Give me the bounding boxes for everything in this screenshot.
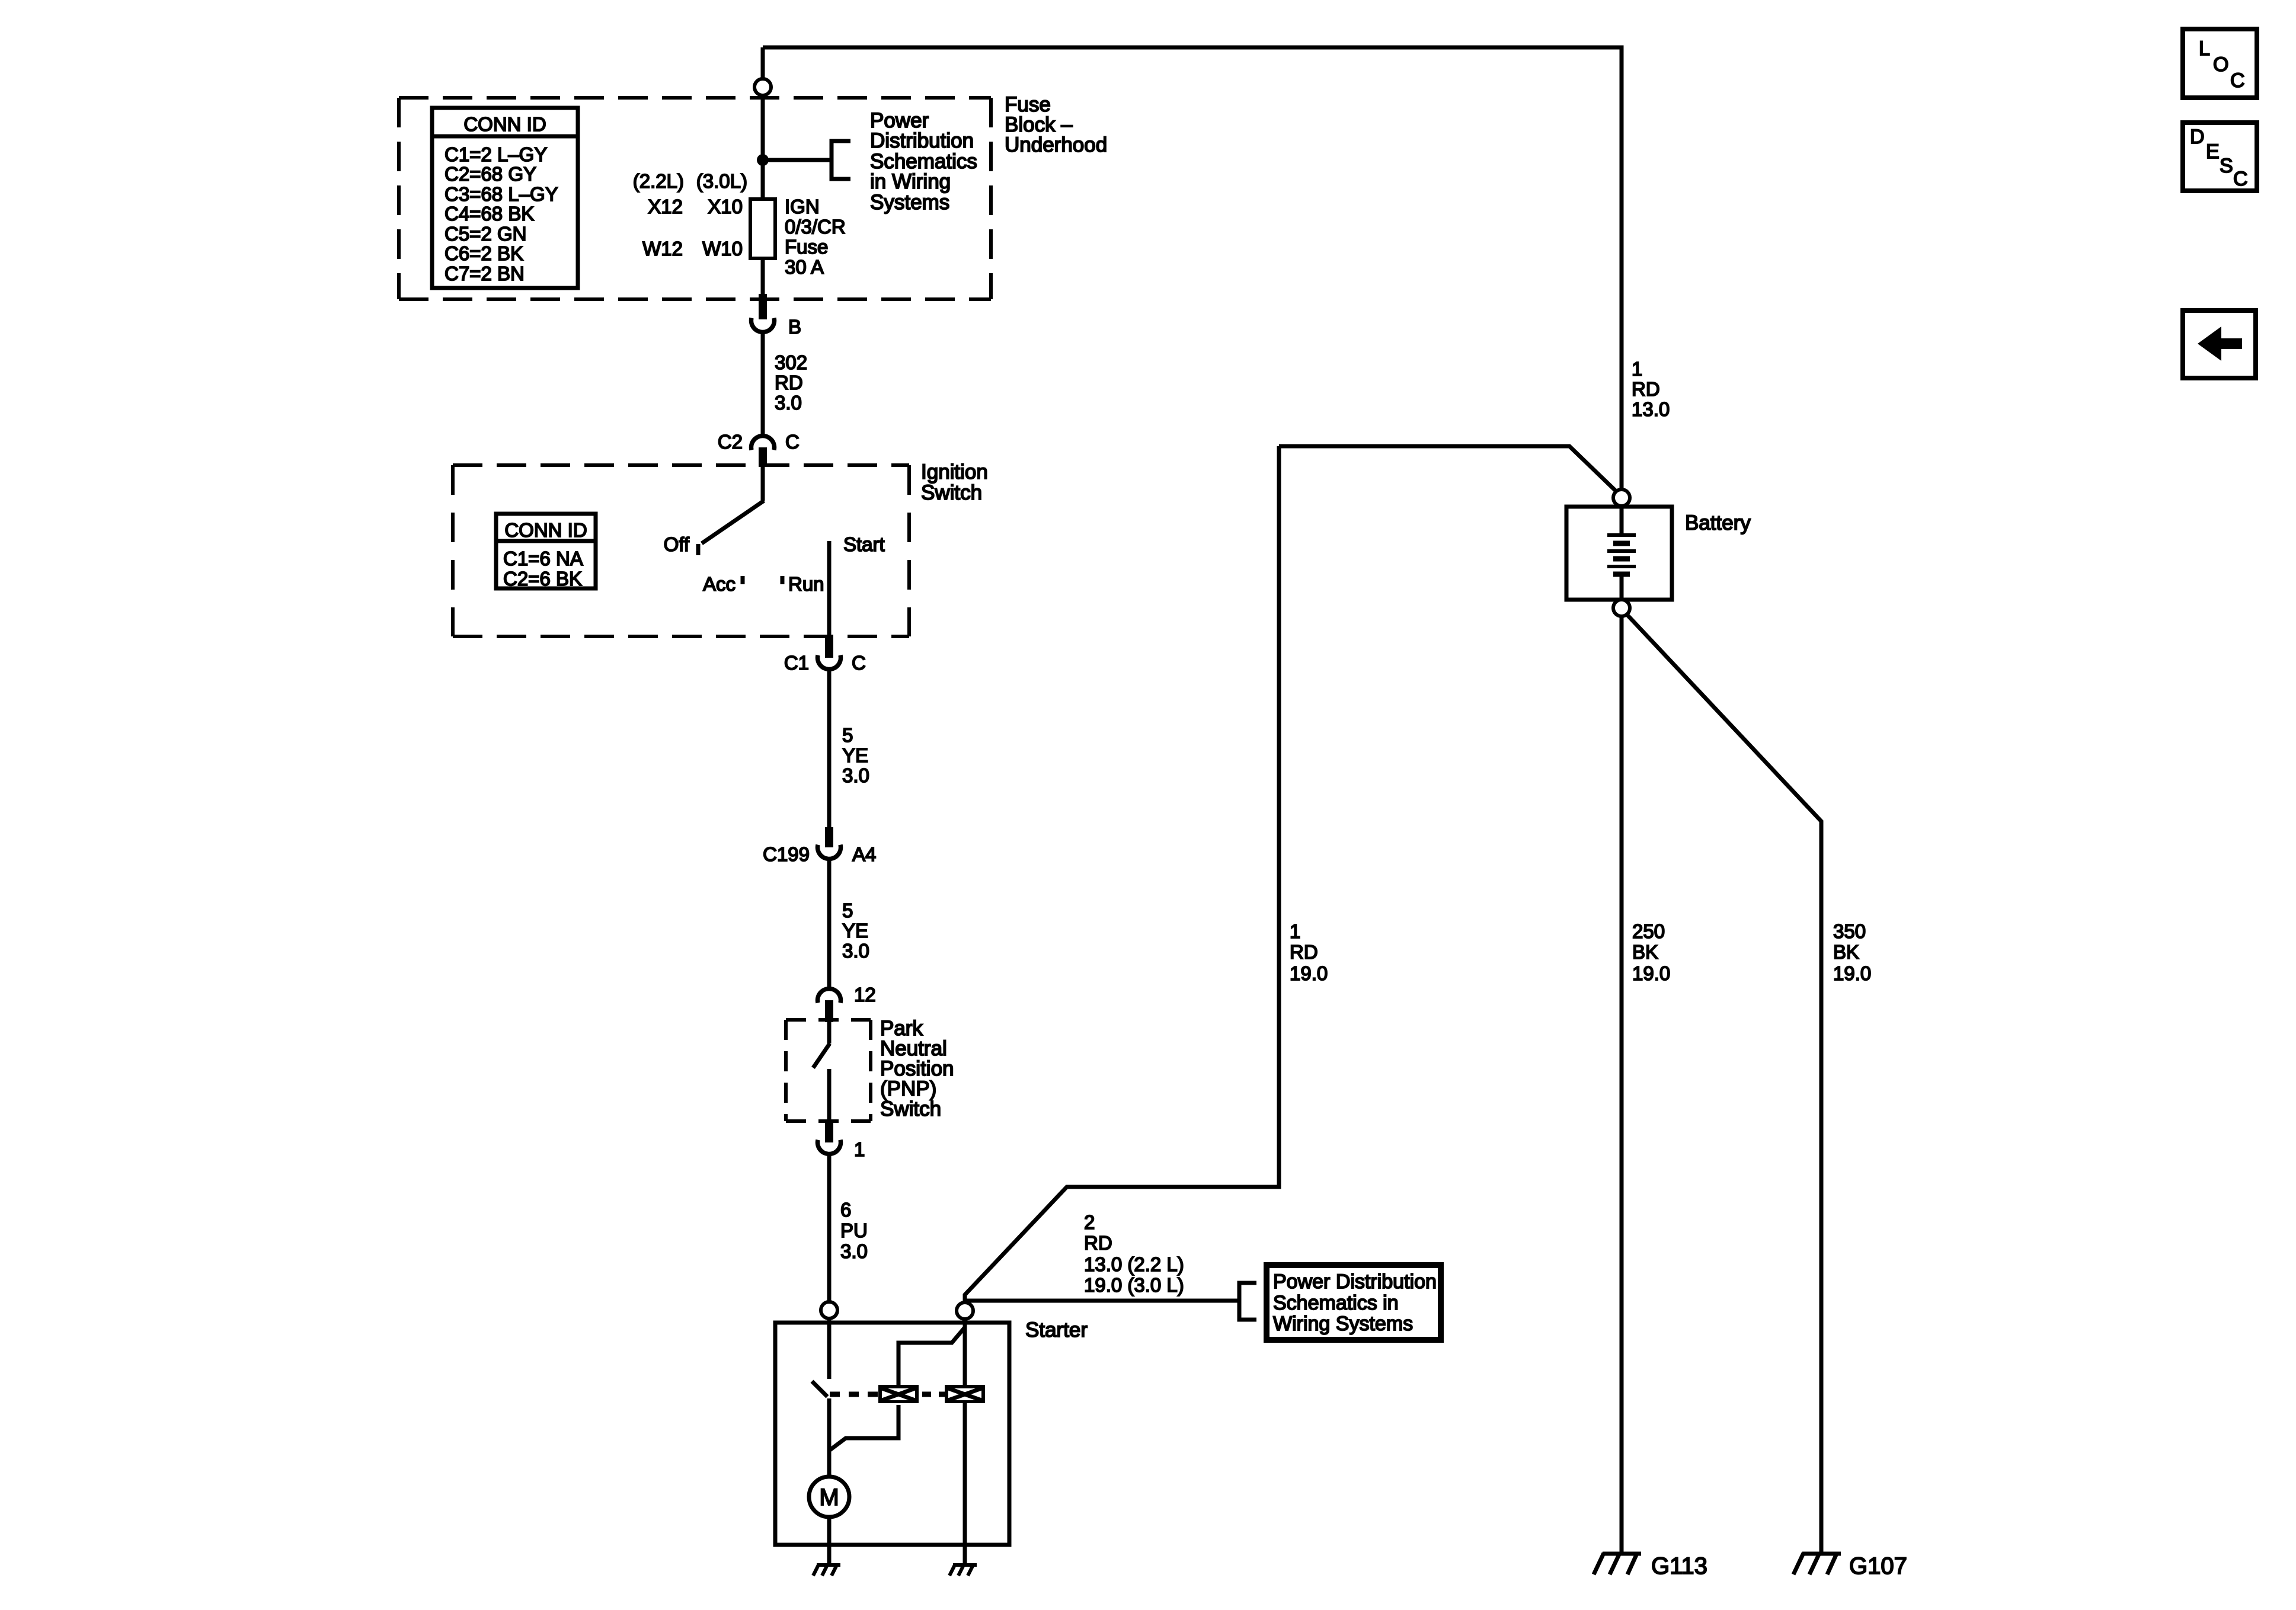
svg-text:BK: BK bbox=[1632, 941, 1658, 963]
svg-text:350: 350 bbox=[1833, 920, 1866, 942]
svg-text:1: 1 bbox=[1290, 920, 1300, 942]
svg-text:Run: Run bbox=[788, 573, 824, 595]
svg-text:250: 250 bbox=[1632, 920, 1665, 942]
svg-text:Battery: Battery bbox=[1685, 511, 1751, 534]
svg-text:3.0: 3.0 bbox=[775, 392, 802, 414]
svg-text:RD: RD bbox=[1290, 941, 1318, 963]
svg-text:B: B bbox=[788, 316, 801, 338]
svg-text:19.0: 19.0 bbox=[1632, 962, 1670, 984]
svg-text:1: 1 bbox=[854, 1138, 865, 1160]
svg-text:PU: PU bbox=[840, 1219, 868, 1241]
svg-text:C3=68 L–GY: C3=68 L–GY bbox=[445, 183, 558, 205]
svg-text:Switch: Switch bbox=[921, 481, 982, 504]
svg-text:L: L bbox=[2199, 37, 2210, 60]
svg-text:Power Distribution: Power Distribution bbox=[1273, 1270, 1437, 1293]
svg-text:13.0: 13.0 bbox=[1632, 398, 1670, 420]
svg-text:IGN: IGN bbox=[785, 196, 820, 217]
svg-text:RD: RD bbox=[1084, 1232, 1112, 1254]
svg-text:3.0: 3.0 bbox=[842, 764, 869, 786]
svg-text:C1: C1 bbox=[784, 652, 809, 674]
svg-text:6: 6 bbox=[840, 1199, 851, 1221]
svg-text:C1=6 NA: C1=6 NA bbox=[503, 548, 583, 569]
svg-text:Underhood: Underhood bbox=[1005, 133, 1107, 156]
svg-text:Ignition: Ignition bbox=[921, 460, 988, 484]
svg-text:X12: X12 bbox=[648, 196, 683, 217]
svg-text:Acc: Acc bbox=[703, 573, 736, 595]
svg-text:Start: Start bbox=[843, 533, 885, 555]
svg-text:5: 5 bbox=[842, 724, 853, 746]
svg-text:(3.0L): (3.0L) bbox=[696, 170, 747, 192]
svg-text:A4: A4 bbox=[852, 843, 876, 865]
svg-text:Schematics in: Schematics in bbox=[1273, 1292, 1399, 1314]
svg-text:C2=6 BK: C2=6 BK bbox=[503, 568, 582, 590]
svg-text:C2: C2 bbox=[718, 431, 743, 453]
svg-text:W10: W10 bbox=[702, 238, 743, 260]
svg-text:Wiring Systems: Wiring Systems bbox=[1273, 1313, 1413, 1335]
svg-text:19.0 (3.0 L): 19.0 (3.0 L) bbox=[1084, 1274, 1184, 1296]
svg-text:O: O bbox=[2213, 53, 2228, 76]
svg-text:13.0 (2.2 L): 13.0 (2.2 L) bbox=[1084, 1253, 1184, 1275]
svg-text:D: D bbox=[2190, 126, 2205, 148]
svg-text:Systems: Systems bbox=[870, 191, 949, 214]
svg-text:302: 302 bbox=[775, 351, 807, 373]
svg-text:3.0: 3.0 bbox=[842, 940, 869, 962]
svg-text:BK: BK bbox=[1833, 941, 1859, 963]
svg-text:C: C bbox=[2230, 69, 2245, 92]
svg-text:M: M bbox=[819, 1484, 839, 1510]
svg-text:0/3/CR: 0/3/CR bbox=[785, 216, 846, 238]
svg-text:CONN ID: CONN ID bbox=[463, 113, 546, 135]
svg-text:C4=68 BK: C4=68 BK bbox=[445, 203, 534, 225]
svg-text:in Wiring: in Wiring bbox=[870, 170, 951, 193]
svg-text:Starter: Starter bbox=[1025, 1318, 1088, 1342]
svg-text:(2.2L): (2.2L) bbox=[633, 170, 684, 192]
svg-text:19.0: 19.0 bbox=[1290, 962, 1328, 984]
svg-text:W12: W12 bbox=[642, 238, 683, 260]
svg-text:19.0: 19.0 bbox=[1833, 962, 1871, 984]
svg-text:G113: G113 bbox=[1651, 1553, 1707, 1579]
svg-text:5: 5 bbox=[842, 900, 853, 921]
svg-text:C199: C199 bbox=[763, 843, 810, 865]
svg-text:YE: YE bbox=[842, 744, 868, 766]
svg-text:RD: RD bbox=[775, 372, 803, 393]
svg-text:C5=2 GN: C5=2 GN bbox=[445, 223, 526, 245]
svg-text:CONN ID: CONN ID bbox=[504, 519, 587, 541]
svg-text:C2=68 GY: C2=68 GY bbox=[445, 163, 536, 185]
svg-text:C7=2 BN: C7=2 BN bbox=[445, 263, 525, 284]
svg-text:S: S bbox=[2220, 155, 2233, 177]
svg-text:C: C bbox=[785, 431, 800, 453]
svg-text:G107: G107 bbox=[1849, 1553, 1907, 1579]
svg-text:1: 1 bbox=[1632, 358, 1642, 380]
svg-text:Distribution: Distribution bbox=[870, 129, 974, 152]
svg-text:E: E bbox=[2206, 140, 2220, 163]
svg-text:RD: RD bbox=[1632, 378, 1660, 400]
svg-text:Fuse: Fuse bbox=[785, 236, 828, 258]
svg-text:3.0: 3.0 bbox=[840, 1240, 868, 1262]
svg-text:2: 2 bbox=[1084, 1211, 1095, 1233]
svg-text:Switch: Switch bbox=[880, 1097, 941, 1121]
svg-text:C: C bbox=[852, 652, 866, 674]
svg-text:C6=2 BK: C6=2 BK bbox=[445, 242, 523, 264]
svg-text:12: 12 bbox=[854, 984, 876, 1006]
svg-text:Off: Off bbox=[664, 533, 690, 555]
svg-text:X10: X10 bbox=[708, 196, 743, 217]
svg-text:C1=2 L–GY: C1=2 L–GY bbox=[445, 143, 547, 165]
svg-text:30 A: 30 A bbox=[785, 256, 824, 278]
svg-text:YE: YE bbox=[842, 920, 868, 942]
svg-text:C: C bbox=[2233, 168, 2248, 190]
